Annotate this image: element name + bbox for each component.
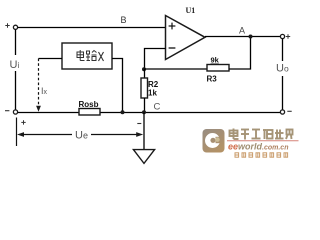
Ue polarity - [137,123,141,125]
tagline [235,153,288,157]
wire bottom rail [18,112,281,114]
glyph 路 (hand-drawn) [86,51,97,61]
svg-text:A: A [239,26,245,36]
svg-text:9k: 9k [211,56,220,65]
电子工程世界 hand strokes [230,129,293,140]
wire Ix dashed drop with arrow [36,59,41,112]
Ue polarity + [21,120,25,124]
logo eeworld (watermark) [198,124,300,166]
op-amp U1 [166,6,206,60]
Ue arrow right [91,132,143,137]
svg-text:Rosb: Rosb [79,100,99,109]
glyph X [99,52,104,61]
terminal + (top-right output) [280,34,290,38]
node A dot + label [249,35,253,39]
wire right vertical upper [282,39,284,61]
svg-text:B: B [121,15,127,25]
wire box right lead [112,59,123,113]
terminal - (bottom-left input) [5,110,18,114]
node C dot + label [142,110,146,114]
wire left vertical upper (Ui lead upper) [15,30,17,56]
terminal + (top-left input) [5,23,17,29]
red rule [227,140,299,142]
svg-text:Ix: Ix [41,86,48,96]
resistor Rosb [79,100,101,115]
resistor R2 [141,69,159,112]
wire R3 to A drop [229,37,251,70]
box circuit X (电路X) [62,43,112,69]
Ue dimension: left tick [16,118,18,147]
svg-text:Ui: Ui [10,59,20,71]
junction dot (feedback node) [142,67,146,71]
wire right vertical lower [282,76,284,110]
wire left vertical lower (Ui lead lower) [15,71,17,110]
svg-text:Uo: Uo [276,63,289,75]
terminal - (bottom-right output) [280,110,291,114]
svg-text:Ue: Ue [75,130,88,142]
junction dot (box drop on bottom rail) [121,110,125,114]
svg-text:C: C [154,102,161,113]
glyph 电 (hand-drawn) [77,50,85,61]
wire top (node B wire from + terminal to op-amp + input) [18,27,166,29]
wire box left lead [39,58,63,60]
Ue arrow left [17,132,72,137]
wire feedback horizontal [144,68,207,70]
wire output [205,36,281,38]
svg-text:1k: 1k [148,89,157,98]
wire inverting input [145,49,166,70]
svg-text:U1: U1 [186,6,196,15]
ground [133,113,154,164]
resistor R3 [207,56,230,84]
svg-text:R3: R3 [207,75,218,84]
